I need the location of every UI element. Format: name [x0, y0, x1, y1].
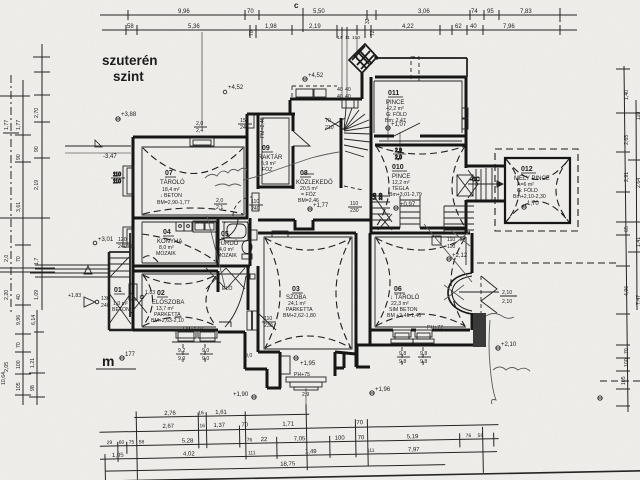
svg-text:BM=2,46: BM=2,46	[298, 198, 319, 204]
svg-text:5,28: 5,28	[182, 438, 194, 444]
svg-text:140: 140	[372, 192, 377, 200]
svg-text:-3,47: -3,47	[103, 154, 117, 160]
svg-text:1,61: 1,61	[215, 410, 227, 416]
svg-text:70: 70	[16, 342, 22, 348]
svg-text:74: 74	[471, 9, 478, 15]
svg-text:100: 100	[335, 436, 346, 442]
svg-text:szuterén: szuterén	[102, 53, 158, 68]
svg-text:2,4: 2,4	[196, 128, 203, 134]
svg-text:120: 120	[118, 237, 127, 243]
svg-text:2,9: 2,9	[302, 392, 309, 398]
svg-text:06: 06	[394, 286, 402, 293]
svg-text:MÉLY PINCE: MÉLY PINCE	[514, 175, 550, 182]
svg-text:05: 05	[221, 231, 229, 238]
svg-text:2,0: 2,0	[4, 255, 10, 262]
svg-text:58: 58	[127, 24, 134, 30]
svg-text:1,37: 1,37	[213, 423, 225, 429]
svg-text:+1,96: +1,96	[375, 387, 391, 393]
svg-text:7,97: 7,97	[408, 447, 420, 453]
svg-text:177: 177	[125, 352, 136, 358]
svg-text:1,71: 1,71	[282, 421, 294, 427]
svg-text:1,21: 1,21	[30, 358, 36, 368]
svg-text:2,1: 2,1	[216, 205, 223, 211]
svg-text:70: 70	[247, 9, 254, 15]
svg-text:16: 16	[198, 410, 204, 416]
svg-text:110: 110	[113, 172, 121, 178]
svg-text:2,0: 2,0	[216, 198, 223, 204]
svg-text:1,41: 1,41	[636, 237, 640, 247]
svg-text:98: 98	[30, 385, 36, 391]
svg-text:240: 240	[251, 206, 260, 212]
svg-text:2,76: 2,76	[164, 411, 176, 417]
svg-text:11: 11	[345, 35, 350, 41]
svg-text:4,22: 4,22	[402, 24, 414, 30]
svg-text:60: 60	[119, 440, 125, 446]
svg-text:70: 70	[16, 256, 22, 262]
svg-text:7,05: 7,05	[294, 436, 306, 442]
svg-text:40: 40	[337, 87, 343, 93]
svg-text:1,98: 1,98	[265, 24, 277, 30]
svg-text:1,83: 1,83	[145, 290, 155, 296]
svg-text:7,96: 7,96	[503, 24, 515, 30]
svg-text:2,10: 2,10	[502, 299, 512, 305]
svg-text:100: 100	[16, 360, 22, 369]
svg-text:32: 32	[365, 18, 371, 24]
svg-text:G: FÖLD: G: FÖLD	[517, 187, 538, 194]
svg-text:95: 95	[487, 9, 494, 15]
svg-text:FÜRDŐ: FÜRDŐ	[217, 240, 239, 247]
svg-text:PH+75: PH+75	[294, 372, 310, 378]
svg-text:KÖZLEKEDŐ: KÖZLEKEDŐ	[296, 179, 333, 186]
svg-text:4,02: 4,02	[183, 451, 195, 457]
svg-text:Bm: 2,47: Bm: 2,47	[385, 118, 406, 124]
svg-text:02: 02	[157, 290, 165, 297]
svg-text:110: 110	[251, 199, 259, 205]
svg-text:BM+2,63-2,10: BM+2,63-2,10	[151, 318, 184, 324]
svg-text:+1,90: +1,90	[233, 392, 249, 398]
svg-text:+2,10: +2,10	[501, 342, 517, 348]
svg-text:70: 70	[356, 420, 363, 426]
svg-text:111: 111	[367, 448, 375, 454]
svg-text:150: 150	[240, 118, 249, 124]
svg-text:1,40: 1,40	[624, 90, 630, 100]
svg-text:012: 012	[521, 166, 533, 173]
svg-text:BM+2,62-1,80: BM+2,62-1,80	[283, 313, 316, 319]
svg-text:1,70: 1,70	[527, 201, 539, 207]
svg-text:100: 100	[624, 358, 630, 367]
svg-text:2,19: 2,19	[34, 180, 40, 190]
svg-text:FM+2,40: FM+2,40	[260, 117, 266, 138]
svg-text:76: 76	[247, 437, 253, 443]
svg-text:011: 011	[388, 90, 399, 97]
svg-text:03: 03	[292, 286, 300, 293]
svg-text:110: 110	[636, 112, 640, 120]
svg-text:210: 210	[325, 125, 334, 131]
svg-text:58: 58	[478, 433, 484, 439]
svg-text:5,50: 5,50	[313, 9, 325, 15]
svg-text:-CC: -CC	[470, 177, 480, 183]
svg-text:4,96: 4,96	[624, 286, 630, 296]
svg-text:240: 240	[240, 125, 249, 131]
svg-text:6,14: 6,14	[31, 315, 37, 325]
svg-text:240: 240	[101, 303, 110, 309]
svg-text:+2,12: +2,12	[452, 253, 468, 259]
svg-text:90: 90	[34, 146, 40, 152]
svg-text:2,0: 2,0	[196, 121, 203, 127]
svg-text:76: 76	[466, 433, 472, 439]
svg-text:FM+1,07: FM+1,07	[183, 327, 204, 333]
svg-text:62: 62	[455, 24, 462, 30]
svg-text:2,65: 2,65	[624, 135, 630, 145]
svg-text:ELŐSZOBA: ELŐSZOBA	[152, 299, 184, 306]
svg-text:1,77: 1,77	[4, 120, 10, 130]
svg-text:58: 58	[139, 439, 145, 445]
svg-text:110: 110	[113, 179, 121, 185]
svg-text:90: 90	[16, 154, 22, 160]
svg-text:04: 04	[163, 229, 171, 236]
svg-text:07: 07	[165, 170, 173, 177]
svg-text:29: 29	[107, 440, 113, 446]
svg-text:130: 130	[101, 296, 110, 302]
svg-text:↓ BETON: ↓ BETON	[160, 193, 182, 199]
svg-text:18,75: 18,75	[280, 461, 296, 467]
svg-text:9,96: 9,96	[178, 9, 190, 15]
svg-text:70: 70	[358, 435, 365, 441]
svg-text:9,0: 9,0	[178, 356, 185, 362]
svg-text:= FÖZ: = FÖZ	[301, 191, 316, 198]
svg-text:2,10: 2,10	[502, 290, 512, 296]
svg-text:Bm+2,10-2,30: Bm+2,10-2,30	[513, 194, 546, 200]
svg-text:1,7: 1,7	[34, 258, 40, 265]
svg-text:9,8: 9,8	[420, 351, 427, 357]
svg-text:+1,83: +1,83	[68, 293, 81, 299]
svg-text:40: 40	[470, 24, 477, 30]
svg-text:40: 40	[16, 294, 22, 300]
svg-text:RAKTÁR: RAKTÁR	[258, 154, 283, 161]
svg-text:BM +2,41-1,46: BM +2,41-1,46	[387, 313, 421, 319]
svg-text:70: 70	[325, 118, 331, 124]
svg-text:70: 70	[241, 422, 248, 428]
svg-text:BM=2,90-1,77: BM=2,90-1,77	[157, 200, 190, 206]
svg-text:+3,01: +3,01	[98, 237, 114, 243]
svg-text:2,70: 2,70	[34, 108, 40, 118]
svg-text:75: 75	[129, 440, 135, 446]
svg-text:2,05: 2,05	[4, 362, 10, 372]
svg-text:9,8: 9,8	[399, 351, 406, 357]
svg-text:TÁROLÓ: TÁROLÓ	[160, 179, 185, 186]
svg-text:110: 110	[264, 316, 272, 322]
svg-text:70: 70	[249, 30, 255, 36]
svg-text:9,8: 9,8	[399, 359, 406, 365]
svg-text:szint: szint	[113, 69, 144, 84]
svg-text:2,91: 2,91	[624, 172, 630, 182]
svg-text:9,2: 9,2	[178, 348, 185, 354]
svg-text:FÖZ: FÖZ	[262, 166, 272, 173]
svg-text:MOZAIK: MOZAIK	[156, 251, 176, 257]
svg-text:10,64: 10,64	[1, 372, 7, 385]
svg-text:2,20: 2,20	[4, 290, 10, 300]
svg-text:3,06: 3,06	[418, 9, 430, 15]
svg-text:111: 111	[248, 450, 256, 456]
svg-text:+0,97: +0,97	[400, 202, 416, 208]
svg-text:m: m	[102, 353, 114, 369]
svg-text:G: FÖLD: G: FÖLD	[386, 111, 407, 118]
svg-text:BETON: BETON	[112, 307, 130, 313]
svg-text:2,19: 2,19	[309, 24, 321, 30]
svg-text:3,61: 3,61	[16, 202, 22, 212]
svg-text:22: 22	[261, 437, 268, 443]
svg-text:110: 110	[447, 237, 455, 243]
svg-text:MOZAIK: MOZAIK	[217, 253, 237, 259]
svg-text:65: 65	[624, 226, 630, 232]
svg-text:ELŐ: ELŐ	[222, 285, 232, 292]
svg-text:230: 230	[264, 323, 273, 329]
svg-text:PH+77: PH+77	[427, 325, 443, 331]
svg-text:16: 16	[199, 423, 205, 429]
svg-text:9,0: 9,0	[202, 348, 209, 354]
svg-text:09: 09	[262, 145, 270, 152]
svg-text:40: 40	[345, 87, 351, 93]
svg-text:+1,95: +1,95	[300, 361, 316, 367]
svg-text:40: 40	[337, 94, 343, 100]
svg-text:1,05: 1,05	[112, 453, 124, 459]
svg-text:230: 230	[350, 208, 359, 214]
svg-text:TÉGLA: TÉGLA	[392, 185, 410, 192]
svg-text:220: 220	[378, 192, 383, 200]
svg-text:40: 40	[345, 94, 351, 100]
svg-text:+4,52: +4,52	[308, 73, 324, 79]
svg-text:01: 01	[114, 287, 122, 294]
svg-text:010: 010	[392, 164, 404, 171]
svg-text:110: 110	[447, 244, 455, 250]
svg-text:+3,88: +3,88	[121, 112, 137, 118]
svg-text:9,0: 9,0	[245, 353, 252, 359]
svg-text:5,19: 5,19	[407, 434, 419, 440]
svg-text:5,36: 5,36	[188, 24, 200, 30]
svg-text:7,83: 7,83	[520, 9, 532, 15]
svg-text:↓ TÁROLÓ: ↓ TÁROLÓ	[390, 294, 420, 301]
svg-text:Bm+3,01-2,79: Bm+3,01-2,79	[389, 192, 422, 198]
svg-text:105: 105	[16, 382, 22, 391]
svg-text:1,77: 1,77	[16, 120, 22, 130]
svg-text:2,0: 2,0	[395, 155, 402, 161]
svg-text:+4,52: +4,52	[228, 85, 244, 91]
svg-text:7,47: 7,47	[636, 295, 640, 305]
svg-text:2,64: 2,64	[636, 178, 640, 188]
svg-text:9,0: 9,0	[202, 356, 209, 362]
svg-text:2,67: 2,67	[162, 424, 174, 430]
svg-text:100: 100	[352, 35, 360, 41]
svg-text:240: 240	[118, 244, 127, 250]
svg-text:1,09: 1,09	[34, 290, 40, 300]
svg-text:1,49: 1,49	[305, 449, 317, 455]
svg-text:110: 110	[350, 201, 358, 207]
svg-text:c: c	[294, 1, 299, 10]
svg-text:9,96: 9,96	[16, 315, 22, 325]
svg-text:72: 72	[370, 30, 376, 36]
svg-text:70: 70	[624, 348, 630, 354]
svg-text:2,9: 2,9	[395, 148, 402, 154]
svg-text:08: 08	[300, 170, 308, 177]
svg-text:9,8: 9,8	[420, 359, 427, 365]
